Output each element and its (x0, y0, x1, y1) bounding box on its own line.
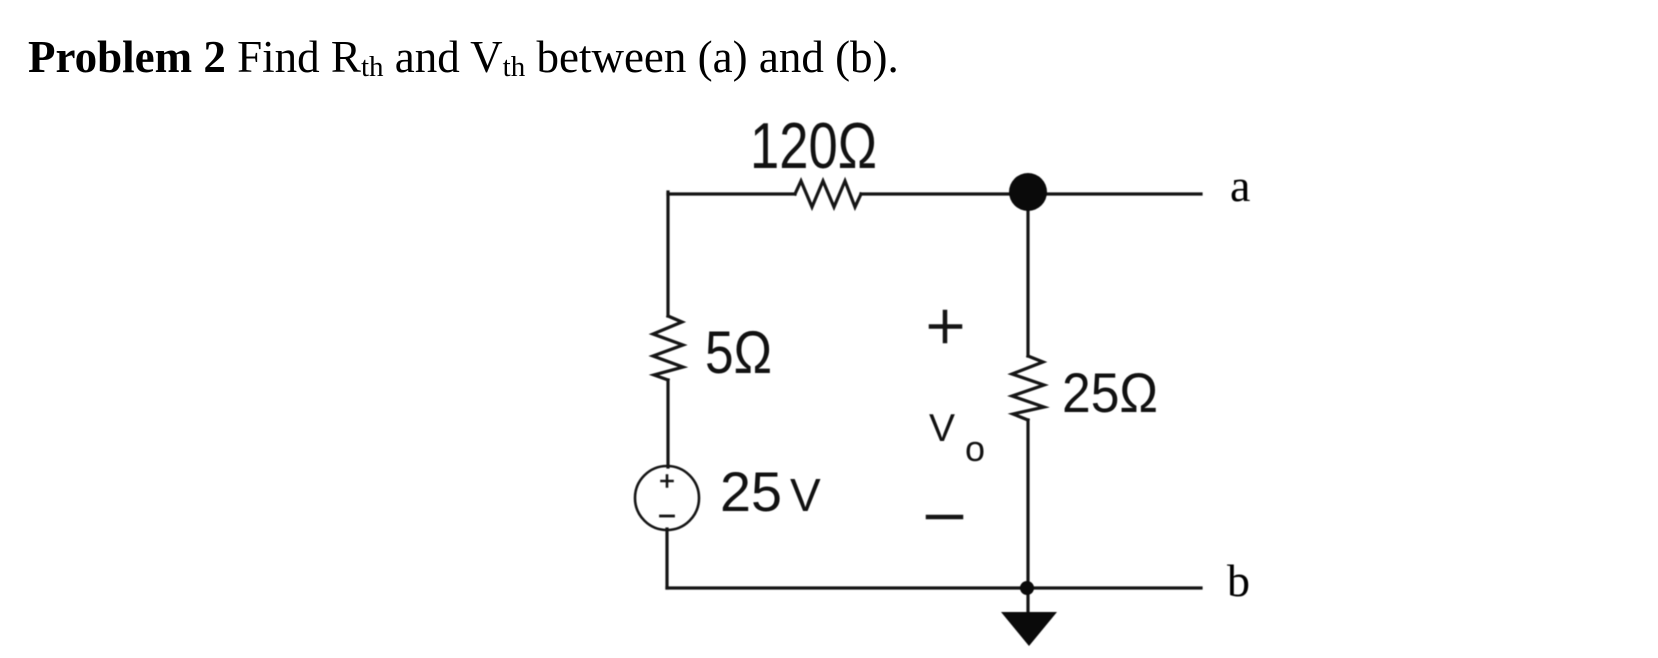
svg-text:b: b (1227, 555, 1250, 606)
svg-text:V: V (790, 469, 821, 521)
svg-text:120Ω: 120Ω (750, 109, 877, 182)
svg-text:25Ω: 25Ω (1062, 361, 1158, 424)
svg-text:25: 25 (720, 460, 782, 523)
svg-text:V: V (929, 407, 955, 450)
svg-text:5Ω: 5Ω (705, 319, 772, 386)
svg-text:o: o (965, 428, 985, 469)
svg-text:a: a (1230, 160, 1250, 211)
